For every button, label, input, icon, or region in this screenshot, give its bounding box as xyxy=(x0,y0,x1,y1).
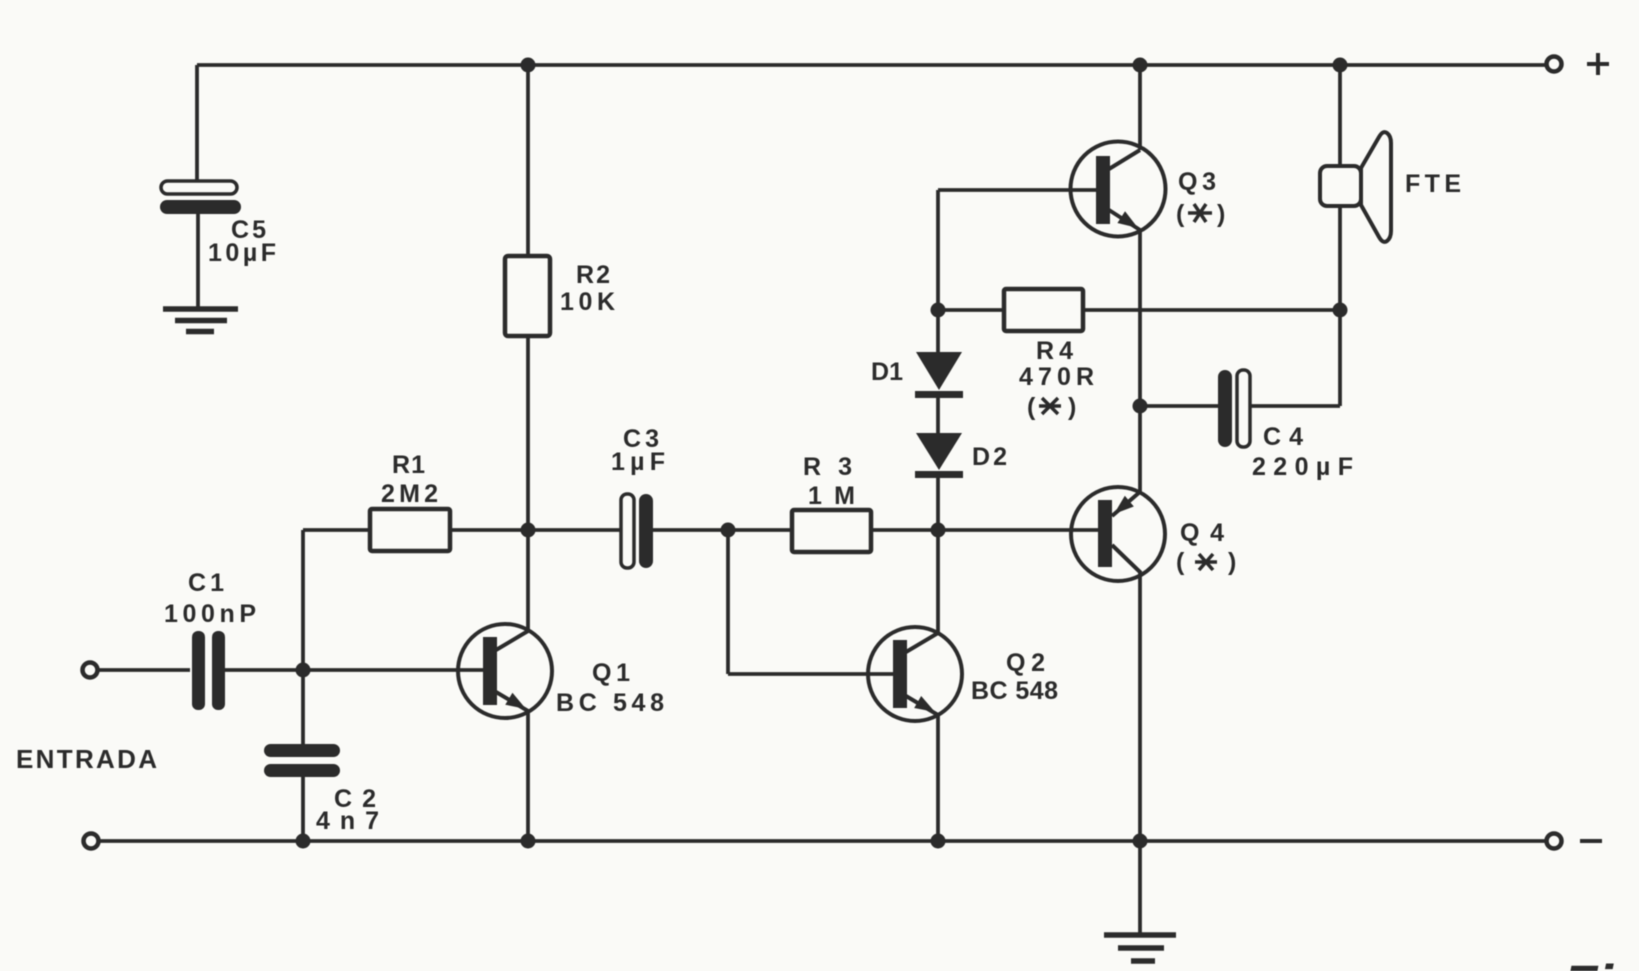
svg-text:Q 3: Q 3 xyxy=(1178,168,1216,196)
wire Q4 emitter up xyxy=(1138,406,1142,492)
diode D1 xyxy=(871,352,963,398)
wire input to C1 xyxy=(98,668,190,672)
capacitor C3 xyxy=(611,425,665,568)
wire C2 bottom xyxy=(301,777,305,841)
wire R2 bottom xyxy=(526,336,530,530)
wire Q3 collector up xyxy=(1138,65,1142,150)
capacitor C2 xyxy=(264,744,379,835)
transistor Q1 xyxy=(458,624,664,718)
node top FTE xyxy=(1333,58,1348,73)
wire C4 right xyxy=(1250,404,1340,408)
wire R2 top xyxy=(526,65,530,256)
svg-text:Q 1: Q 1 xyxy=(592,659,630,687)
svg-text:): ) xyxy=(1068,393,1076,421)
svg-text:BC 548: BC 548 xyxy=(556,689,664,717)
transistor Q3 xyxy=(1071,142,1226,237)
svg-text:): ) xyxy=(1228,548,1236,576)
svg-text:R 4: R 4 xyxy=(1036,337,1073,365)
svg-text:10K: 10K xyxy=(560,288,615,316)
svg-text:(: ( xyxy=(1176,548,1185,576)
wire speaker column xyxy=(1338,206,1342,406)
node C2 rail xyxy=(296,834,311,849)
svg-text:Q 2: Q 2 xyxy=(1006,649,1045,677)
wire C3 to node B xyxy=(653,528,728,532)
svg-text:Fi: Fi xyxy=(1563,953,1614,971)
svg-text:ENTRADA: ENTRADA xyxy=(16,744,157,774)
wire node B to R3 xyxy=(728,528,792,532)
terminal input bottom xyxy=(84,834,99,849)
wire C2 top xyxy=(301,670,305,744)
ground (C5) xyxy=(163,309,238,332)
wire R3 right to Q4 base xyxy=(871,528,1098,532)
svg-text:(: ( xyxy=(1027,393,1036,421)
wire Q2 emitter down xyxy=(936,715,940,841)
svg-text:FTE: FTE xyxy=(1405,170,1461,198)
node C1/R1/C2 xyxy=(296,663,311,678)
wire Q4 collector down xyxy=(1138,573,1142,841)
svg-text:R1: R1 xyxy=(392,451,425,479)
node output C4 xyxy=(1133,399,1148,414)
terminal - bottom right xyxy=(1547,834,1562,849)
terminal + top right xyxy=(1547,57,1562,72)
node Q1 rail xyxy=(521,834,536,849)
svg-text:R2: R2 xyxy=(576,261,610,289)
wire D1-D2 link xyxy=(936,398,940,433)
wire top rail + xyxy=(197,63,1546,67)
svg-text:R 3: R 3 xyxy=(803,453,852,481)
node D2/R3/Q4 xyxy=(931,523,946,538)
svg-text:): ) xyxy=(1217,200,1225,228)
resistor R3 xyxy=(792,453,871,552)
wire R1 right to C3 xyxy=(450,528,621,532)
capacitor C1 xyxy=(164,569,256,710)
terminal input top xyxy=(83,663,98,678)
wire bottom rail - xyxy=(99,839,1546,843)
wire R4 right xyxy=(1083,308,1340,312)
wire C1 to Q1 base xyxy=(224,668,483,672)
wire left drop to C5 xyxy=(195,65,199,182)
wire Q2 collector up xyxy=(936,530,940,633)
svg-text:Q 4: Q 4 xyxy=(1180,519,1224,547)
node D1/R4/Q3 xyxy=(931,303,946,318)
wire speaker top xyxy=(1338,65,1342,166)
svg-text:220µF: 220µF xyxy=(1252,453,1353,481)
node Q4 rail xyxy=(1133,834,1148,849)
capacitor C5 xyxy=(160,181,276,267)
svg-text:D2: D2 xyxy=(972,443,1007,471)
label - supply xyxy=(1580,839,1602,843)
svg-text:1µF: 1µF xyxy=(611,448,665,476)
wire C5 to ground xyxy=(196,213,200,309)
label + supply xyxy=(1587,53,1609,75)
wire Q1 emitter down xyxy=(526,711,530,841)
node B C3/R3/Q2 xyxy=(721,523,736,538)
svg-text:D1: D1 xyxy=(871,358,903,386)
svg-text:100nP: 100nP xyxy=(164,600,256,628)
svg-text:C 4: C 4 xyxy=(1263,423,1303,451)
svg-text:2M2: 2M2 xyxy=(381,480,438,508)
wire D2 bottom xyxy=(936,478,940,530)
svg-text:470R: 470R xyxy=(1019,363,1094,391)
speaker FTE xyxy=(1320,132,1461,242)
wire Q3 emitter down xyxy=(1138,230,1142,406)
ground (bottom right) xyxy=(1104,935,1176,961)
svg-text:4 n 7: 4 n 7 xyxy=(316,807,379,835)
wire R4 left xyxy=(938,308,1004,312)
node Q2 rail xyxy=(931,834,946,849)
svg-text:C 1: C 1 xyxy=(188,569,224,597)
resistor R4 xyxy=(1004,289,1094,421)
wire Q3 base horizontal xyxy=(938,188,1096,192)
capacitor C4 xyxy=(1218,370,1353,481)
svg-text:1M: 1M xyxy=(808,482,855,510)
wire Q1 collector xyxy=(526,530,530,631)
wire ground stem right xyxy=(1138,841,1142,935)
node top R2 xyxy=(521,58,536,73)
diode D2 xyxy=(915,433,1007,478)
resistor R2 xyxy=(505,256,615,336)
node R1/R2/C3 xyxy=(521,523,536,538)
transistor Q2 xyxy=(868,627,1058,721)
svg-text:BC 548: BC 548 xyxy=(971,677,1058,705)
wire Q3 base column xyxy=(936,190,940,352)
svg-text:10µF: 10µF xyxy=(208,239,276,267)
wire to Q2 base xyxy=(728,672,893,676)
svg-text:(: ( xyxy=(1176,200,1185,228)
wire node B down xyxy=(726,530,730,674)
transistor Q4 xyxy=(1071,487,1236,581)
wire C4 left xyxy=(1140,404,1218,408)
wire node A up from C1 node to R1 xyxy=(301,530,305,670)
wire R1 left xyxy=(303,528,370,532)
node top Q3 xyxy=(1133,58,1148,73)
node R4/FTE/C4 xyxy=(1333,303,1348,318)
resistor R1 xyxy=(370,451,450,551)
